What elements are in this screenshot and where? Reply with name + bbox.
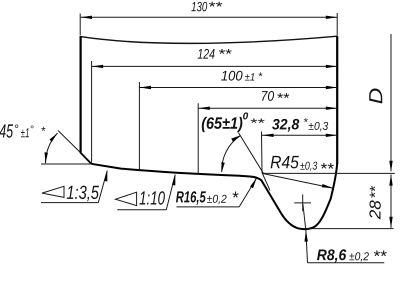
- dim 100: dimension line: [139, 87, 337, 89]
- R8.6 shelf underline: [308, 262, 385, 264]
- svg-text:R8,6: R8,6: [317, 247, 347, 264]
- angle 65 deg: tangent extension below vertex: [262, 173, 270, 191]
- slope 1:10 leader: [166, 175, 175, 210]
- svg-text:*: *: [258, 71, 263, 83]
- R16.5 leader arrow: [250, 178, 257, 189]
- angle 65 deg: upper arc arrow: [231, 135, 241, 141]
- dim 70: left extension line: [197, 103, 199, 173]
- dim 70: left arrow: [198, 107, 209, 110]
- svg-text:**: **: [373, 248, 387, 265]
- dim 124: right arrow: [326, 65, 337, 68]
- dim 32.8: dimension line: [262, 134, 337, 136]
- dim 124: left arrow: [92, 65, 103, 68]
- svg-text:45: 45: [0, 121, 13, 142]
- svg-text:124: 124: [197, 46, 215, 62]
- profile outline: top edge curve: [81, 36, 338, 43]
- svg-text:**: **: [320, 161, 334, 178]
- dim 100: right arrow: [326, 86, 337, 89]
- dim 100: left arrow: [140, 86, 151, 89]
- angle 45 deg: horizontal reference line: [41, 163, 91, 165]
- dim 32.8: right arrow: [326, 134, 337, 137]
- slope 1:3.5 leader: [98, 171, 107, 203]
- dim 70: dimension line: [198, 107, 337, 109]
- slope 1:10 leader arrow: [172, 174, 175, 185]
- R16.5 leader: [239, 178, 256, 207]
- dim 130: left arrow: [81, 16, 92, 19]
- groove arc center cross: [294, 202, 311, 204]
- svg-text:±1: ±1: [245, 72, 256, 84]
- svg-text:**: **: [249, 116, 266, 130]
- svg-text:±0,2: ±0,2: [349, 251, 370, 263]
- svg-text:R16,5: R16,5: [176, 189, 207, 206]
- svg-text:R45: R45: [270, 152, 300, 172]
- dim 130: right arrow: [326, 16, 337, 19]
- dim 28: dimension line: [390, 175, 392, 228]
- dim 124: left extension line: [91, 61, 93, 164]
- svg-text:**: **: [276, 90, 289, 106]
- dim 130: left extension line: [79, 14, 81, 36]
- slope 1:3.5 leader arrow: [104, 170, 107, 181]
- dim 130: right extension line: [336, 13, 338, 36]
- svg-text:**: **: [208, 0, 223, 14]
- dim 28: top arrow: [389, 174, 392, 185]
- angle 45 deg: upper arc arrow: [49, 133, 57, 142]
- svg-text:±0,3: ±0,3: [308, 121, 329, 133]
- svg-text:±0,3: ±0,3: [300, 161, 318, 173]
- svg-text:70: 70: [261, 88, 275, 104]
- svg-text:1:3,5: 1:3,5: [66, 183, 99, 204]
- angle 45 deg: chamfer extension line: [58, 131, 80, 153]
- R45 leader arrow: [322, 184, 334, 188]
- svg-text:**: **: [218, 46, 232, 62]
- D dimension line: [390, 34, 392, 171]
- angle 65 deg: lower arc arrow: [221, 162, 224, 172]
- angle 65 deg: flank tangent leg line: [239, 133, 264, 174]
- R45 leader: [262, 173, 333, 188]
- profile outline: bottom slope and groove: [91, 164, 337, 230]
- svg-text:*: *: [232, 188, 240, 207]
- R45 shelf / extension line to D and 28 dims: [262, 172, 395, 174]
- svg-text:28: 28: [368, 200, 385, 220]
- dim 28: bottom extension line: [307, 228, 394, 230]
- R8.6 leader arrow: [305, 230, 308, 242]
- dim 32.8: left extension line: [261, 132, 264, 173]
- svg-text:±1: ±1: [21, 125, 30, 140]
- profile outline: 45deg chamfer: [80, 152, 91, 164]
- dim 100: left extension line: [138, 82, 140, 170]
- angle 45 deg: dimension arc: [46, 133, 58, 163]
- angle 65 deg: dimension arc: [222, 135, 241, 172]
- R8.6 leader: [306, 231, 308, 263]
- slope symbol 1:10 triangle: [116, 192, 137, 205]
- svg-text:0: 0: [243, 111, 249, 122]
- svg-text:°: °: [14, 122, 19, 136]
- svg-text:130: 130: [191, 0, 208, 14]
- svg-text:±0,2: ±0,2: [207, 194, 228, 206]
- svg-text:°: °: [30, 125, 34, 136]
- slope symbol 1:3.5 triangle: [42, 186, 64, 197]
- angle 45 deg: lower arc arrow: [45, 152, 48, 163]
- profile outline: right edge: [336, 36, 338, 164]
- svg-text:D: D: [366, 88, 387, 104]
- profile outline: left edge: [79, 36, 81, 153]
- R16.5 shelf underline: [177, 206, 240, 208]
- svg-text:32,8: 32,8: [272, 116, 300, 133]
- R8.6 leader thin continuation to center: [303, 204, 306, 231]
- slope 1:3.5 shelf underline: [41, 202, 98, 204]
- dim 124: dimension line: [92, 65, 338, 67]
- dim 70: right arrow: [326, 107, 337, 110]
- svg-text:100: 100: [221, 68, 243, 84]
- svg-text:*: *: [41, 126, 46, 138]
- dim 130: dimension line: [81, 16, 338, 18]
- svg-text:1:10: 1:10: [139, 188, 165, 209]
- dim 28: bottom arrow: [389, 217, 392, 228]
- svg-text:**: **: [367, 185, 384, 199]
- svg-text:(65±1): (65±1): [201, 115, 243, 133]
- dim 32.8: left arrow: [262, 134, 273, 137]
- D dimension arrow: [389, 161, 392, 172]
- slope 1:10 shelf underline: [117, 209, 166, 211]
